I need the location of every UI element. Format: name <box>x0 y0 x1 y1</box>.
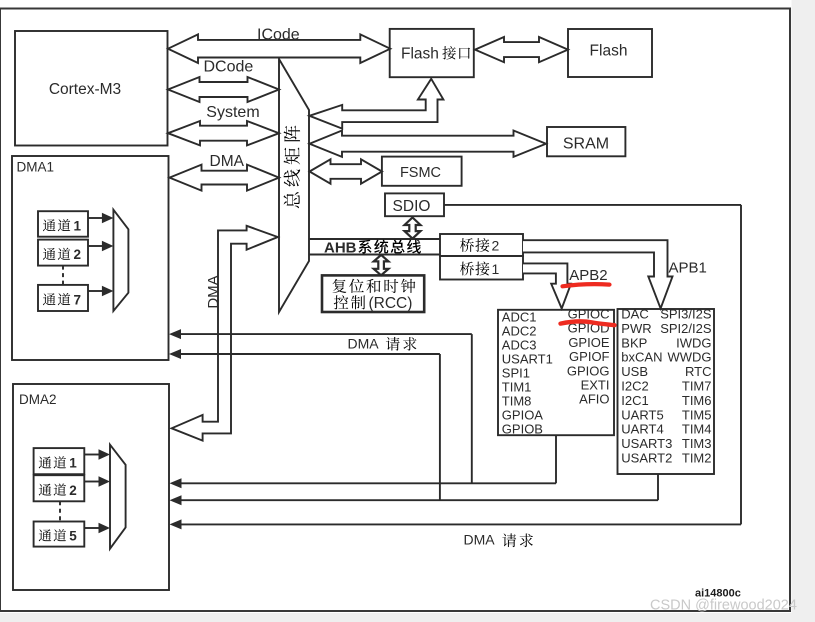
svg-text:SPI1: SPI1 <box>502 365 530 380</box>
svg-text:SRAM: SRAM <box>563 135 609 152</box>
svg-text:DCode: DCode <box>204 58 254 75</box>
svg-text:7: 7 <box>74 292 82 307</box>
svg-text:CSDN @firewood2024: CSDN @firewood2024 <box>650 598 797 614</box>
svg-text:DAC: DAC <box>621 307 648 322</box>
svg-text:UART4: UART4 <box>621 422 663 437</box>
svg-text:5: 5 <box>69 529 77 544</box>
svg-text:DMA: DMA <box>348 336 380 352</box>
svg-text:AFIO: AFIO <box>579 392 609 407</box>
svg-text:DMA: DMA <box>464 532 496 548</box>
svg-text:SPI2/I2S: SPI2/I2S <box>660 321 712 336</box>
svg-text:1: 1 <box>69 456 77 471</box>
svg-text:2: 2 <box>492 238 500 254</box>
svg-text:1: 1 <box>492 261 500 277</box>
svg-text:GPIOE: GPIOE <box>568 335 610 350</box>
svg-text:(RCC): (RCC) <box>369 295 413 312</box>
svg-text:ADC2: ADC2 <box>502 323 537 338</box>
svg-text:TIM6: TIM6 <box>682 393 712 408</box>
svg-text:BKP: BKP <box>621 335 647 350</box>
svg-text:IWDG: IWDG <box>676 335 711 350</box>
svg-text:UART5: UART5 <box>621 407 663 422</box>
svg-text:SDIO: SDIO <box>393 198 431 215</box>
svg-text:Flash: Flash <box>401 45 439 62</box>
svg-text:GPIOC: GPIOC <box>568 307 610 322</box>
svg-text:TIM3: TIM3 <box>682 436 712 451</box>
svg-text:APB1: APB1 <box>669 260 707 277</box>
svg-text:USART1: USART1 <box>502 351 553 366</box>
svg-text:FSMC: FSMC <box>400 165 441 181</box>
svg-text:TIM1: TIM1 <box>502 379 532 394</box>
svg-text:I2C2: I2C2 <box>621 379 648 394</box>
svg-text:TIM8: TIM8 <box>502 393 532 408</box>
svg-text:Flash: Flash <box>590 42 628 59</box>
svg-text:System: System <box>206 104 259 121</box>
svg-text:ADC1: ADC1 <box>502 309 537 324</box>
svg-text:ADC3: ADC3 <box>502 337 537 352</box>
svg-text:DMA: DMA <box>205 275 222 308</box>
svg-text:TIM2: TIM2 <box>682 451 712 466</box>
svg-text:DMA2: DMA2 <box>19 392 57 407</box>
svg-text:2: 2 <box>74 247 82 262</box>
svg-text:GPIOF: GPIOF <box>569 349 610 364</box>
svg-text:DMA1: DMA1 <box>17 160 55 175</box>
svg-text:USART3: USART3 <box>621 436 672 451</box>
svg-text:I2C1: I2C1 <box>621 393 648 408</box>
svg-text:EXTI: EXTI <box>581 378 610 393</box>
svg-text:APB2: APB2 <box>569 267 607 284</box>
svg-text:USART2: USART2 <box>621 451 672 466</box>
svg-text:GPIOA: GPIOA <box>502 407 544 422</box>
svg-text:bxCAN: bxCAN <box>621 350 662 365</box>
svg-text:2: 2 <box>69 483 77 498</box>
svg-text:Cortex-M3: Cortex-M3 <box>49 81 121 98</box>
svg-text:TIM7: TIM7 <box>682 379 712 394</box>
svg-text:WWDG: WWDG <box>667 350 711 365</box>
svg-text:GPIOB: GPIOB <box>502 421 543 436</box>
svg-text:TIM4: TIM4 <box>682 422 712 437</box>
svg-text:DMA: DMA <box>210 153 245 170</box>
svg-text:RTC: RTC <box>685 364 711 379</box>
svg-text:PWR: PWR <box>621 321 651 336</box>
svg-text:AHB: AHB <box>324 239 357 256</box>
svg-text:TIM5: TIM5 <box>682 407 712 422</box>
svg-text:1: 1 <box>74 218 82 233</box>
svg-text:SPI3/I2S: SPI3/I2S <box>660 307 712 322</box>
svg-text:GPIOG: GPIOG <box>567 363 610 378</box>
svg-text:USB: USB <box>621 364 648 379</box>
